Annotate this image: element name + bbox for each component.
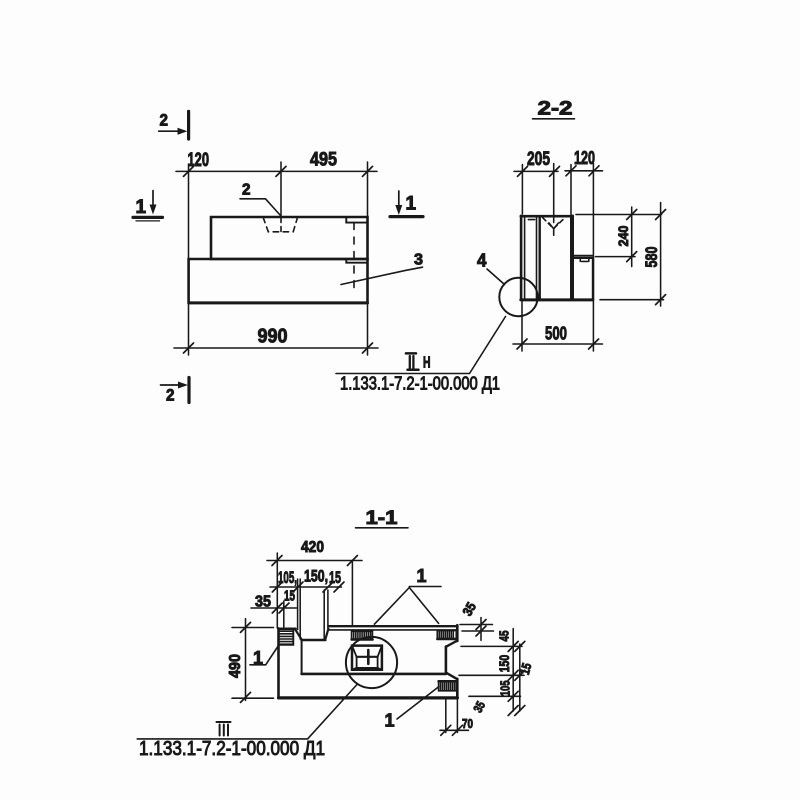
svg-text:45: 45 [497, 631, 512, 642]
svg-text:2: 2 [242, 182, 251, 199]
svg-text:105: 105 [498, 681, 513, 697]
svg-text:580: 580 [643, 247, 661, 268]
svg-text:1-1: 1-1 [366, 508, 398, 529]
svg-text:1: 1 [385, 711, 395, 731]
svg-text:70: 70 [462, 717, 473, 731]
svg-text:2-2: 2-2 [538, 99, 573, 120]
svg-text:35: 35 [471, 699, 488, 715]
svg-text:15: 15 [517, 661, 534, 676]
svg-text:120: 120 [574, 148, 595, 168]
svg-text:2: 2 [166, 386, 175, 405]
svg-text:150,: 150, [304, 568, 328, 586]
svg-text:1.133.1-7.2-1-00.000 Д1: 1.133.1-7.2-1-00.000 Д1 [139, 738, 325, 760]
svg-text:3: 3 [414, 252, 423, 269]
svg-text:420: 420 [301, 539, 324, 556]
svg-text:490: 490 [227, 654, 244, 678]
svg-text:1: 1 [136, 197, 147, 218]
svg-text:500: 500 [545, 322, 567, 343]
svg-text:120: 120 [188, 150, 210, 171]
svg-text:1: 1 [406, 194, 417, 215]
svg-text:150: 150 [497, 655, 512, 673]
svg-text:2: 2 [160, 111, 169, 130]
svg-text:15: 15 [284, 588, 295, 605]
svg-text:4: 4 [477, 251, 487, 271]
svg-text:205: 205 [527, 149, 550, 170]
svg-text:Н: Н [423, 355, 431, 372]
svg-text:990: 990 [258, 325, 288, 348]
svg-text:240: 240 [615, 225, 631, 246]
svg-text:495: 495 [310, 149, 337, 170]
svg-text:1.133.1-7.2-1-00.000 Д1: 1.133.1-7.2-1-00.000 Д1 [340, 374, 500, 394]
svg-text:1: 1 [417, 566, 427, 586]
svg-text:35: 35 [460, 599, 480, 618]
